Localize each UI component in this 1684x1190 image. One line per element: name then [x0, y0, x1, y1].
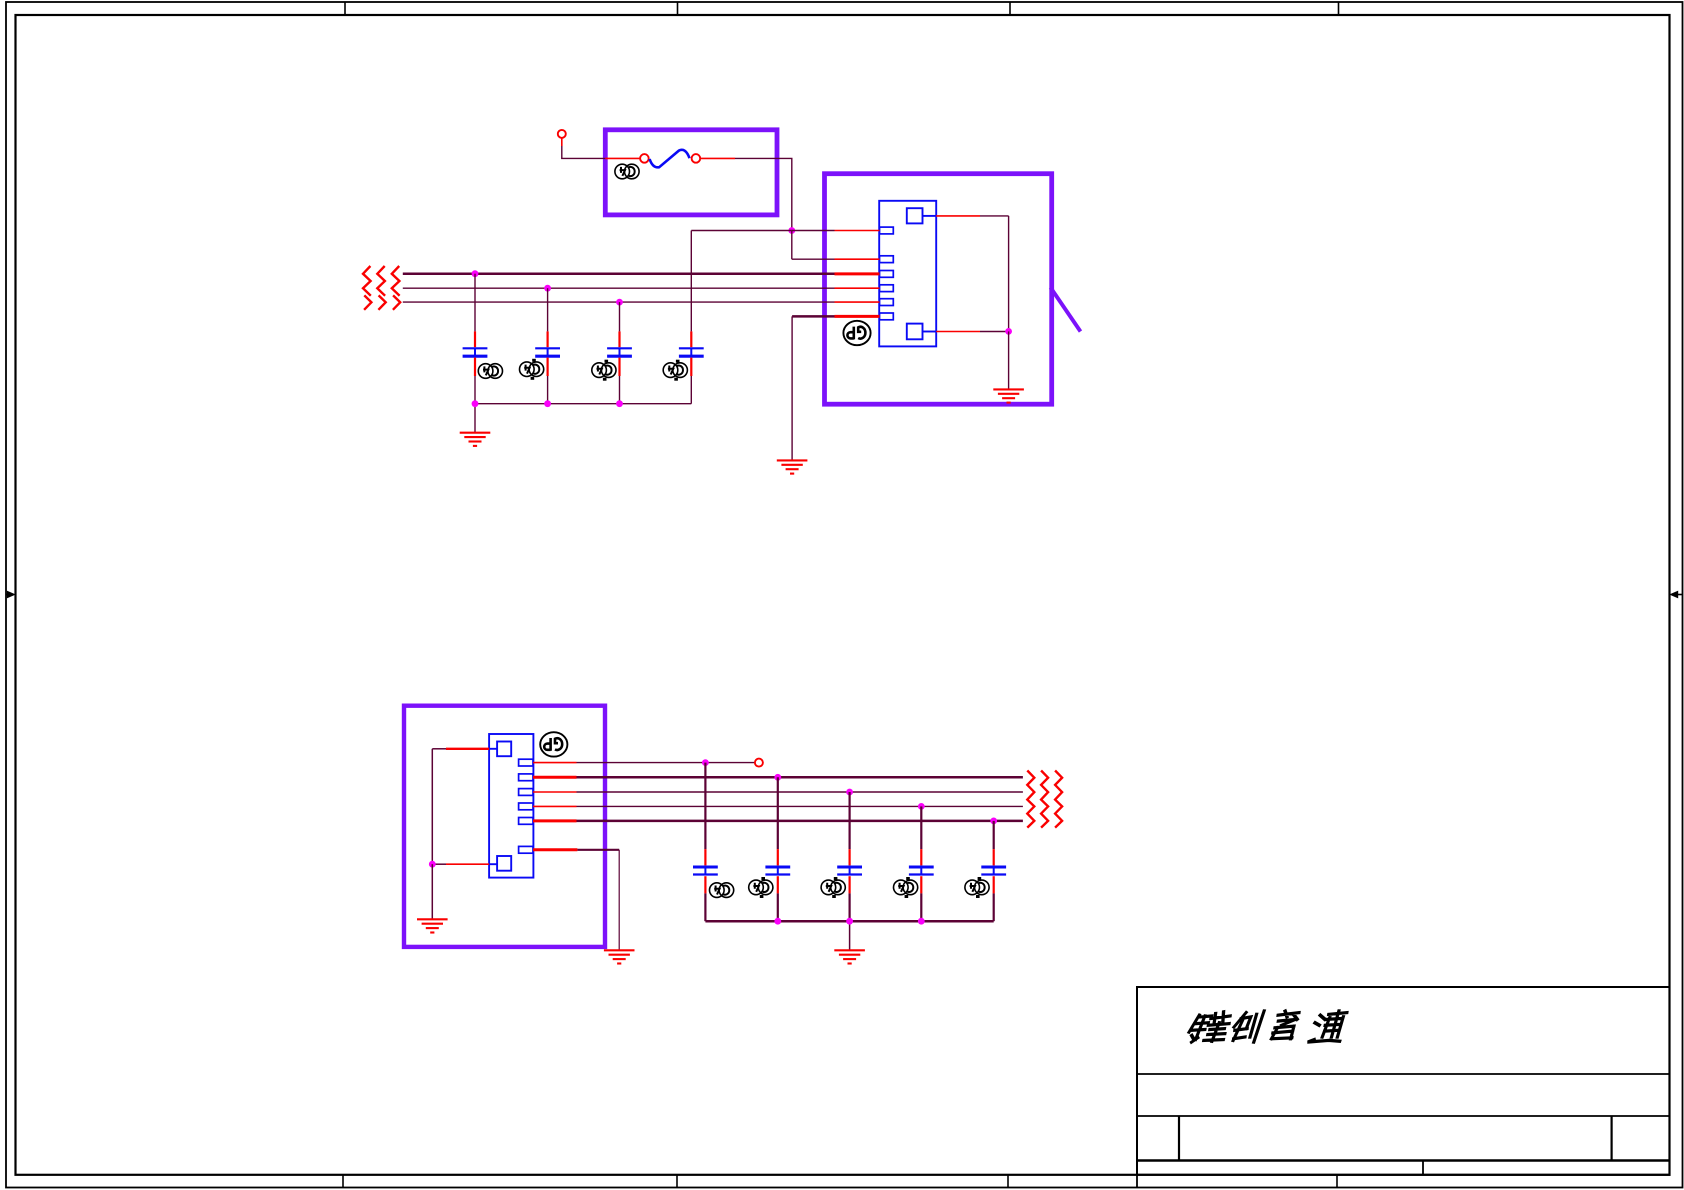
node junction C8	[918, 803, 925, 810]
ground bus wire	[475, 404, 691, 433]
ground GND6	[834, 950, 865, 963]
value label C1 refdes	[478, 364, 502, 379]
wire CN2 aux bottom	[432, 863, 489, 865]
junction dots ground bus bottom	[774, 918, 924, 925]
ground GND1	[460, 433, 491, 446]
connector CN2 body	[489, 734, 533, 878]
ground GND4	[417, 919, 448, 932]
wire	[700, 158, 792, 230]
value label C4 refdes	[663, 360, 687, 381]
left border center arrow	[6, 591, 16, 599]
fuse block outline	[605, 130, 777, 215]
value label C7 refdes	[821, 877, 845, 898]
connector block outline	[825, 174, 1052, 405]
node junction C6	[774, 774, 781, 781]
capacitor C4	[679, 331, 704, 403]
node junction C9	[990, 818, 997, 825]
capacitor C9	[981, 821, 1006, 921]
bus wire net2	[403, 287, 880, 289]
wire row1 with no-connect	[533, 762, 755, 764]
connector CN2 pin square bottom	[489, 856, 511, 871]
capacitor C1	[463, 274, 488, 404]
wire stub to cap bank	[691, 231, 792, 332]
wire pin1	[792, 230, 880, 232]
connector CN2 pin square top	[489, 742, 511, 757]
connector CN1 body	[879, 201, 936, 347]
bus wire net1 thick	[403, 272, 880, 275]
capacitor C8	[909, 806, 934, 921]
junction dots ground bus	[472, 400, 623, 407]
wire pin2	[792, 231, 880, 260]
value label C5 refdes	[710, 883, 734, 898]
top border zone ticks	[345, 2, 1339, 15]
ground GND2	[993, 389, 1024, 402]
connector CN2 pins 1-6	[519, 759, 533, 853]
capacitor C6	[765, 777, 790, 921]
fuse F1	[640, 150, 700, 168]
node junction C3	[616, 299, 623, 306]
node junction	[1005, 328, 1012, 335]
wire row2 thick	[533, 776, 1023, 779]
wire to ground	[1008, 331, 1010, 389]
value label C3 refdes	[592, 360, 616, 381]
wire row4	[533, 805, 1023, 807]
value label C8 refdes	[894, 877, 918, 898]
ground bus wire bottom	[705, 921, 993, 950]
wire pin6 to ground	[792, 316, 879, 460]
connector block corner diagonal	[1051, 288, 1081, 332]
label CN1 refdes 6P	[843, 321, 870, 345]
connector CN1 pin square top	[907, 208, 936, 223]
wire to ground	[431, 864, 433, 919]
value label C6 refdes	[749, 877, 773, 898]
company logo text	[1187, 1011, 1348, 1042]
right border center arrow	[1669, 591, 1682, 599]
value label fuse refdes	[615, 164, 639, 179]
node junction	[429, 861, 436, 868]
node A junction	[788, 227, 795, 234]
node junction C2	[544, 285, 551, 292]
ground GND5	[604, 950, 635, 963]
wire row5 thick	[533, 819, 1023, 822]
title block outline	[1137, 987, 1670, 1175]
bottom border zone ticks	[343, 1175, 1337, 1188]
capacitor C7	[837, 792, 862, 921]
node junction C7	[846, 789, 853, 796]
value label C9 refdes	[965, 877, 989, 898]
connector CN1 pins 1-6	[880, 227, 894, 320]
wire row3	[533, 791, 1023, 793]
no-connect terminal	[755, 759, 763, 767]
label CN2 refdes 6P	[540, 732, 567, 756]
capacitor C3	[607, 302, 632, 404]
capacitor C5	[693, 763, 718, 922]
off-page connector right	[1027, 771, 1062, 828]
wire	[605, 157, 640, 159]
capacitor C2	[535, 288, 560, 404]
value label C2 refdes	[520, 359, 544, 380]
connector CN1 pin square bottom	[907, 324, 936, 340]
ground GND3	[777, 460, 808, 473]
wire row6 to ground	[533, 850, 619, 950]
terminal circle J1	[558, 130, 566, 138]
wire	[561, 138, 605, 159]
node junction C5	[702, 759, 709, 766]
wire CN2 aux top	[432, 749, 489, 864]
bus wire net3	[403, 301, 880, 303]
wire CN1 aux pins	[936, 216, 1008, 332]
node junction C1	[472, 270, 479, 277]
connector block 2 outline	[404, 706, 605, 947]
off-page connector left	[363, 266, 400, 310]
